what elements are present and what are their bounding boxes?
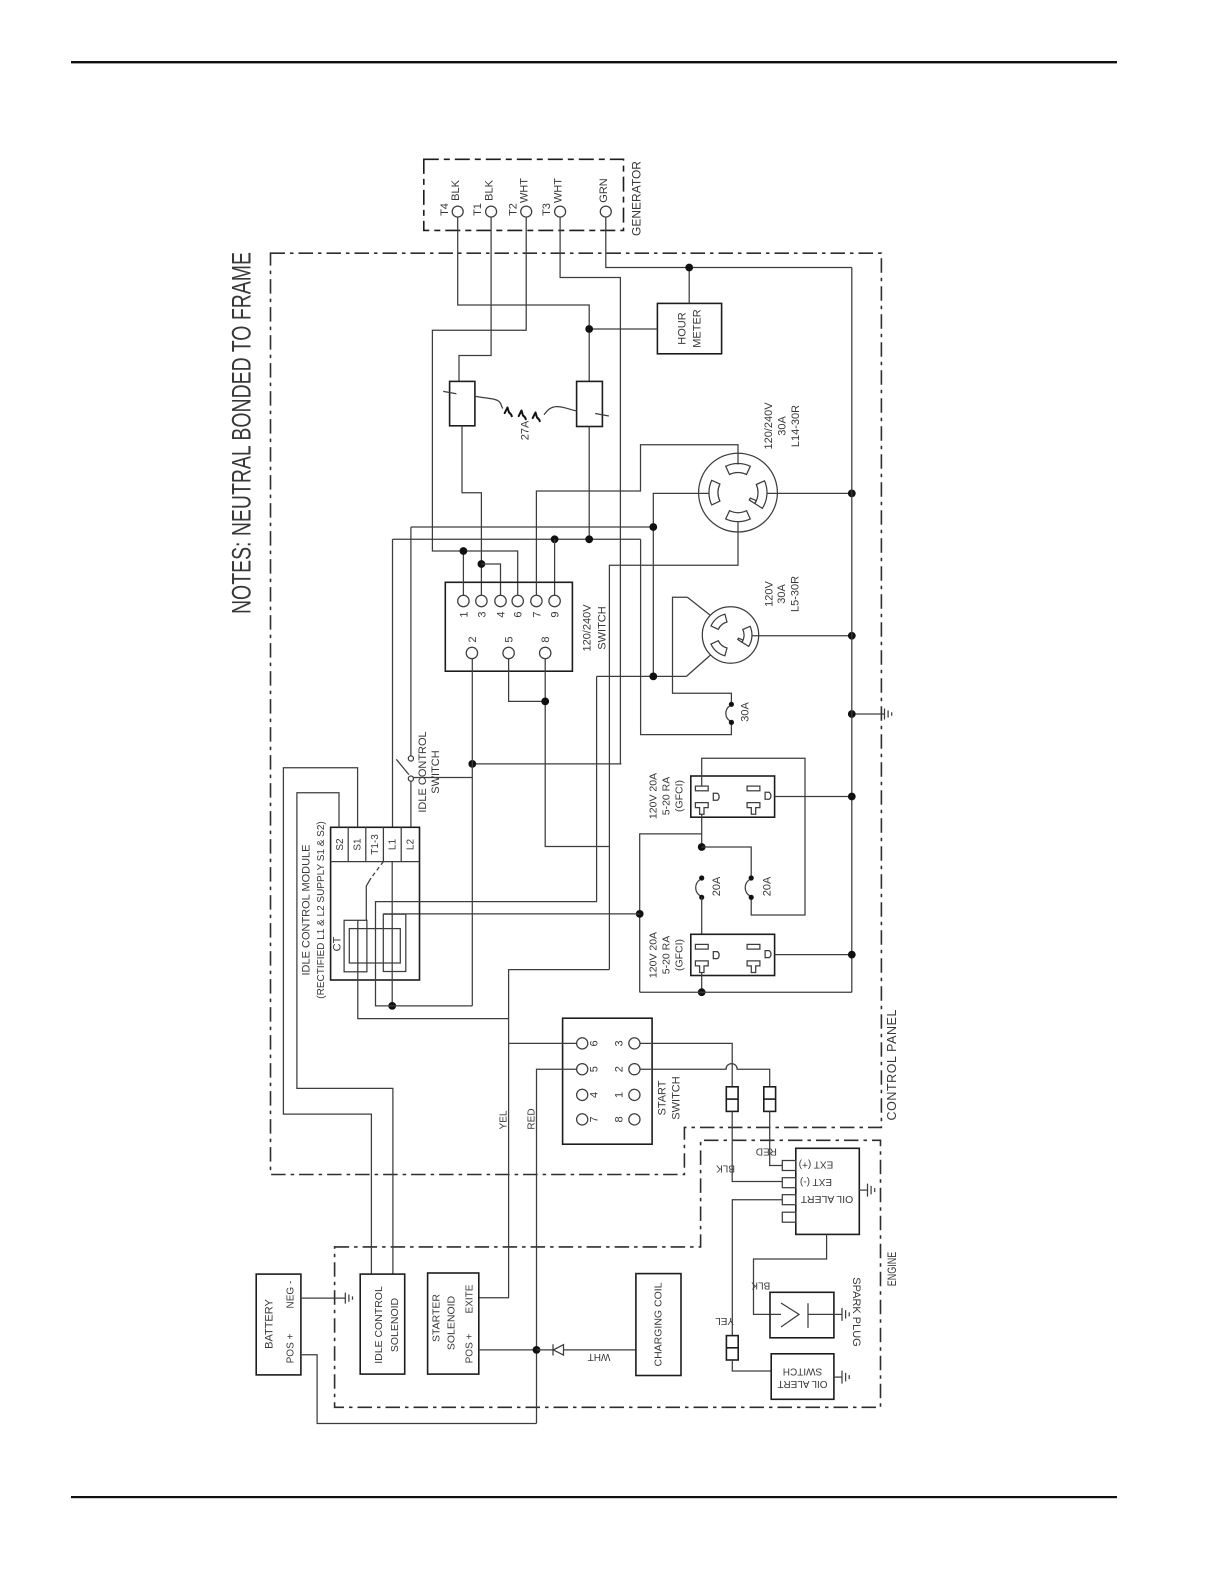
label L5-30R [763, 576, 801, 612]
junction term3 [478, 560, 486, 568]
label YEL [499, 1110, 510, 1129]
svg-text:120V 20A: 120V 20A [648, 932, 660, 978]
label CT [331, 936, 343, 951]
svg-text:L1: L1 [388, 839, 399, 851]
idle control module box [331, 827, 420, 980]
idle control switch label [417, 731, 442, 812]
svg-text:CHARGING COIL: CHARGING COIL [653, 1282, 665, 1366]
oil alert box [796, 1148, 860, 1234]
CT conductor loop [349, 929, 400, 963]
label BLK spark [751, 1280, 770, 1291]
svg-text:120/240V: 120/240V [763, 402, 775, 450]
control panel label [885, 1009, 899, 1120]
battery box [256, 1274, 301, 1375]
receptacle GFCI 1 [691, 776, 775, 817]
label RED [527, 1108, 538, 1129]
bottom rule [71, 1496, 1117, 1498]
svg-text:120V: 120V [763, 580, 775, 606]
hour meter box [657, 303, 721, 353]
junction bus L5 [848, 632, 856, 640]
control panel border (dash-dot) [271, 253, 882, 1174]
wire T1 to breaker [459, 217, 491, 381]
svg-text:30A: 30A [739, 702, 751, 722]
switch terminal 7 [531, 595, 544, 617]
top rule [71, 61, 1117, 63]
wire term5 drop [509, 659, 546, 702]
junction term5-8 [541, 698, 549, 706]
svg-text:T3: T3 [541, 203, 553, 216]
switch terminal 5 [503, 636, 516, 658]
junction hour meter top [685, 264, 693, 272]
svg-text:20A: 20A [711, 876, 723, 896]
label RED connector [756, 1146, 777, 1157]
junction L14 neutral [649, 523, 657, 531]
svg-text:6: 6 [588, 1040, 600, 1046]
charging coil label [653, 1282, 665, 1366]
wire L14 bottom slot [609, 521, 738, 970]
wire hot bus L1 [393, 538, 641, 540]
svg-text:1: 1 [613, 1092, 625, 1098]
breaker CB2 (right pole) [577, 381, 609, 426]
wire battery NEG ground [301, 1297, 345, 1299]
note NEUTRAL BONDED TO FRAME [226, 252, 256, 614]
wire switch term2 drop [471, 659, 473, 1006]
junction CT link [636, 910, 644, 918]
start switch box [563, 1018, 653, 1144]
wire GFCI1 top feed [702, 758, 805, 915]
svg-text:5-20 RA: 5-20 RA [661, 936, 673, 975]
start switch terminal 8 [613, 1114, 640, 1125]
svg-text:HOUR: HOUR [676, 312, 688, 344]
start switch label [656, 1076, 682, 1119]
svg-text:120V 20A: 120V 20A [648, 773, 660, 819]
svg-text:27A: 27A [519, 420, 531, 440]
switch terminal 4 [495, 595, 508, 617]
spark gap symbol [770, 1303, 834, 1328]
svg-text:IDLE CONTROL: IDLE CONTROL [417, 731, 429, 812]
wire GRN to bus [606, 217, 852, 267]
label YEL engine [715, 1315, 734, 1326]
wire starter POS [479, 1349, 537, 1351]
wire GFCI1 right to bus [775, 796, 852, 798]
svg-text:L14-30R: L14-30R [790, 405, 802, 447]
wire CT conductor [358, 920, 509, 1018]
trip arrow 3 [533, 413, 540, 422]
svg-text:SWITCH: SWITCH [596, 606, 608, 649]
junction GFCI2 bottom [698, 988, 706, 996]
junction L5 feed [649, 673, 657, 681]
label 30A [739, 702, 751, 722]
module cell S1 [353, 838, 364, 851]
wire L14 top slot to switch term7 [536, 445, 738, 596]
CT core left [344, 920, 367, 972]
battery labels [263, 1281, 296, 1364]
wire neutral jog [472, 763, 621, 765]
label GFCI 1 [648, 773, 686, 819]
svg-text:SWITCH: SWITCH [430, 750, 442, 793]
start switch terminal 2 [613, 1064, 640, 1075]
wire S2 path [297, 793, 393, 1274]
svg-text:SWITCH: SWITCH [670, 1076, 682, 1119]
wire CB2 out [588, 427, 590, 540]
svg-text:OIL ALERT: OIL ALERT [800, 1193, 853, 1205]
wire GFCI2 right to bus [775, 954, 852, 956]
wire hour meter left [589, 328, 657, 330]
start switch terminal 1 [613, 1089, 640, 1100]
svg-text:METER: METER [691, 309, 703, 348]
switch terminal 9 [549, 595, 562, 617]
breaker 20A left [696, 875, 705, 900]
idle control solenoid label [373, 1286, 401, 1364]
junction term9 tap [551, 535, 559, 543]
wire idle switch to L2 cell [410, 781, 412, 827]
label BLK connector [716, 1163, 735, 1174]
svg-text:6: 6 [513, 611, 525, 617]
generator terminal GRN [598, 178, 611, 217]
svg-text:POS +: POS + [465, 1333, 476, 1363]
start switch terminal 7 [577, 1114, 601, 1125]
generator box (dashed) [424, 159, 624, 230]
start switch terminal 3 [613, 1038, 640, 1049]
wire battery POS [301, 1355, 537, 1424]
junction L1 out [388, 1002, 396, 1010]
diode [553, 1344, 571, 1355]
svg-text:YEL: YEL [715, 1315, 734, 1326]
receptacle L14-30R [699, 453, 778, 532]
junction 20A feed [698, 843, 706, 851]
label SPARK PLUG [850, 1277, 862, 1347]
wire L5 right slot to bus [753, 635, 852, 637]
switch terminal 3 [476, 595, 489, 617]
svg-text:8: 8 [613, 1116, 625, 1122]
hour meter label [676, 309, 703, 348]
breaker 20A right [745, 875, 754, 900]
breaker 30A [726, 702, 734, 725]
svg-text:SWITCH: SWITCH [783, 1366, 822, 1377]
wire oil alert out YEL [732, 1200, 782, 1336]
wire spark plug BLK [754, 1234, 827, 1314]
start switch terminal 5 [577, 1064, 601, 1075]
trip arrow 1 [505, 408, 512, 417]
ground symbol spark [834, 1308, 849, 1321]
wire BLK to EXT- [732, 1111, 782, 1181]
idle control solenoid box [360, 1274, 405, 1374]
ground symbol oil switch [834, 1371, 849, 1384]
wire L1 internal [391, 862, 393, 1006]
wire T2 neutral to switch terms 1-6 [432, 217, 526, 595]
wire L14 right slot to bus [767, 492, 852, 494]
wire term9 drop [554, 539, 556, 595]
svg-text:7: 7 [531, 611, 543, 617]
charging coil box [636, 1274, 681, 1376]
ground symbol oil alert [868, 1184, 875, 1197]
wire term8 drop [545, 659, 609, 847]
breaker leader left [475, 396, 503, 408]
svg-text:L5-30R: L5-30R [789, 576, 801, 612]
wire RED to EXT+ [770, 1111, 783, 1165]
generator terminal T3 [541, 178, 565, 217]
svg-text:WHT: WHT [552, 178, 564, 203]
connector YEL [726, 1336, 738, 1360]
svg-text:30A: 30A [776, 584, 788, 604]
wire start5 RED [537, 1069, 577, 1423]
svg-text:WHT: WHT [588, 1351, 611, 1362]
svg-text:OIL ALERT: OIL ALERT [777, 1378, 827, 1389]
junction bus GFCI2 [848, 951, 856, 959]
label WHT [588, 1351, 611, 1362]
svg-text:RED: RED [756, 1146, 777, 1157]
module cell L2 [405, 839, 416, 851]
svg-text:WHT: WHT [519, 178, 531, 203]
start switch terminal 4 [577, 1089, 601, 1100]
svg-text:5: 5 [588, 1066, 600, 1072]
svg-text:5-20 RA: 5-20 RA [661, 777, 673, 816]
generator terminal T4 [439, 179, 463, 217]
svg-text:STARTER: STARTER [431, 1294, 443, 1342]
svg-text:9: 9 [549, 611, 561, 617]
CT core right [383, 914, 406, 971]
wire POS to diode [537, 1349, 554, 1351]
svg-text:SOLENOID: SOLENOID [389, 1297, 401, 1352]
label L14-30R [763, 402, 802, 450]
svg-text:NEG -: NEG - [286, 1281, 297, 1309]
svg-text:RED: RED [527, 1108, 538, 1129]
svg-text:ENGINE: ENGINE [885, 1252, 899, 1287]
label EXT- [800, 1176, 832, 1187]
breaker CB1 (left pole) [443, 381, 475, 425]
svg-text:8: 8 [540, 636, 552, 642]
oil alert switch box [771, 1354, 834, 1400]
wire T3 neutral down [560, 217, 620, 764]
generator terminal T1 [472, 179, 496, 217]
wire 20A jumper [702, 847, 752, 878]
module cell T1-3 [370, 834, 381, 855]
wire term1 drop [462, 551, 464, 595]
label 20A right [761, 876, 773, 896]
svg-text:2: 2 [467, 636, 479, 642]
svg-text:7: 7 [588, 1116, 600, 1122]
switch terminal 8 [540, 636, 553, 658]
svg-text:(GFCI): (GFCI) [674, 939, 686, 971]
label GFCI 2 [648, 932, 686, 978]
receptacle L5-30R [702, 607, 758, 663]
module terminal strip [331, 827, 420, 861]
svg-text:EXT (+): EXT (+) [799, 1159, 834, 1170]
svg-text:T4: T4 [439, 203, 451, 216]
ground symbol battery [345, 1293, 352, 1304]
svg-text:2: 2 [613, 1066, 625, 1072]
svg-text:POS +: POS + [286, 1333, 297, 1363]
junction hour meter left [585, 325, 593, 333]
wire diode to coil [571, 1349, 636, 1351]
junction jog term2 [468, 760, 476, 768]
svg-text:5: 5 [503, 636, 515, 642]
wire GFCI1 neutral branch [640, 834, 702, 992]
wire YEL to oil switch [732, 1360, 771, 1371]
ground symbol bus [885, 708, 892, 719]
module cell L1 [388, 839, 399, 851]
start switch terminal 6 [577, 1038, 601, 1049]
wire CB1 out to switch terms 3-4 [462, 426, 481, 596]
wire module neutral path [376, 676, 597, 1006]
junction bus L14 [848, 490, 856, 498]
label 27A [519, 420, 531, 440]
svg-text:BLK: BLK [450, 179, 462, 200]
svg-text:S2: S2 [335, 838, 346, 851]
svg-text:BLK: BLK [751, 1280, 770, 1291]
svg-text:3: 3 [476, 611, 488, 617]
junction CB2 tap [585, 535, 593, 543]
wire start3 BLK [640, 1043, 732, 1086]
wire S1 path [283, 768, 371, 1274]
svg-text:T1: T1 [472, 203, 484, 216]
svg-text:1: 1 [458, 611, 470, 617]
svg-text:GRN: GRN [598, 178, 610, 203]
spark plug box [770, 1292, 834, 1338]
svg-text:S1: S1 [353, 838, 364, 851]
svg-text:START: START [656, 1080, 668, 1115]
module cell S2 [335, 838, 346, 851]
L5 funnel [673, 597, 732, 704]
idle control switch [396, 756, 413, 781]
svg-text:3: 3 [613, 1040, 625, 1046]
label OIL ALERT [800, 1193, 853, 1205]
junction bus GFCI1 [848, 793, 856, 801]
svg-text:SPARK PLUG: SPARK PLUG [850, 1277, 862, 1347]
svg-text:4: 4 [495, 611, 507, 617]
svg-text:(GFCI): (GFCI) [674, 780, 686, 812]
svg-text:NOTES: NEUTRAL BONDED TO FRAME: NOTES: NEUTRAL BONDED TO FRAME [226, 252, 256, 614]
svg-text:CT: CT [331, 936, 343, 951]
svg-text:SOLENOID: SOLENOID [446, 1295, 458, 1350]
svg-text:BLK: BLK [483, 179, 495, 200]
connector RED [764, 1087, 776, 1112]
starter solenoid label [431, 1284, 476, 1363]
svg-text:IDLE CONTROL: IDLE CONTROL [373, 1286, 385, 1364]
wire start6 YEL [509, 1042, 577, 1044]
wire oil alert ground [859, 1189, 867, 1191]
module dashed diagonal [371, 862, 383, 878]
breaker leader right [544, 407, 577, 415]
wire start2 RED [640, 1064, 770, 1087]
trip arrow 2 [519, 411, 526, 420]
wire main bus [851, 268, 853, 993]
wire hour meter top [688, 268, 690, 304]
wire neutral H1 [411, 526, 653, 528]
engine border (dash-dot) [335, 1140, 881, 1407]
label OIL ALERT SWITCH [777, 1366, 827, 1390]
svg-text:4: 4 [588, 1092, 600, 1098]
wire L14 left slot [653, 493, 709, 676]
wire GFCI1 bottom [701, 815, 703, 848]
wire L5 feed [597, 675, 687, 677]
svg-text:L2: L2 [405, 839, 416, 851]
svg-text:EXT (-): EXT (-) [800, 1176, 832, 1187]
svg-text:CONTROL PANEL: CONTROL PANEL [885, 1009, 899, 1120]
svg-text:120/240V: 120/240V [581, 604, 593, 652]
svg-text:30A: 30A [776, 416, 788, 436]
svg-text:T2: T2 [507, 203, 519, 216]
label EXT+ [799, 1159, 834, 1170]
switch terminal 1 [458, 595, 471, 617]
oil alert terminals [782, 1161, 796, 1223]
wire hot bus left drop to L1 cell [392, 539, 394, 827]
wire jog to term 4 [481, 564, 500, 595]
svg-text:EXITE: EXITE [465, 1284, 476, 1313]
svg-text:(RECTIFIED L1 & L2 SUPPLY S1 &: (RECTIFIED L1 & L2 SUPPLY S1 & S2) [316, 821, 327, 998]
generator label [630, 161, 644, 236]
wire bus ground stem [852, 713, 885, 715]
svg-text:GENERATOR: GENERATOR [630, 161, 644, 236]
wire L14N to YEL [479, 970, 610, 1298]
wire hot bus to 30A breaker [641, 539, 732, 734]
svg-text:T1-3: T1-3 [370, 834, 381, 855]
wire H1 drop to idle switch [410, 527, 412, 756]
svg-text:YEL: YEL [499, 1110, 510, 1129]
module diag solid [366, 878, 371, 920]
wire GFCI2 bottom [701, 973, 703, 993]
junction RED POS [533, 1346, 541, 1354]
starter solenoid box [428, 1273, 479, 1374]
wire CT link [384, 913, 640, 915]
engine label [885, 1252, 899, 1287]
label 20A left [711, 876, 723, 896]
wire T4 to breaker [458, 217, 590, 381]
switch terminal 6 [512, 595, 525, 617]
wire GFCI return [640, 991, 852, 993]
switch label [581, 604, 608, 652]
svg-text:BATTERY: BATTERY [263, 1298, 275, 1348]
module label [300, 821, 327, 998]
junction bus ground [848, 710, 856, 718]
wire idle switch to neutral [413, 777, 473, 779]
connector BLK [726, 1087, 738, 1112]
switch 120/240V box [445, 582, 572, 671]
generator terminal T2 [507, 178, 531, 217]
receptacle GFCI 2 [691, 934, 775, 975]
junction term1 [460, 547, 468, 555]
switch terminal 2 [466, 636, 479, 658]
svg-text:20A: 20A [761, 876, 773, 896]
svg-text:IDLE CONTROL MODULE: IDLE CONTROL MODULE [300, 844, 312, 975]
wire 20A left out [701, 897, 703, 934]
